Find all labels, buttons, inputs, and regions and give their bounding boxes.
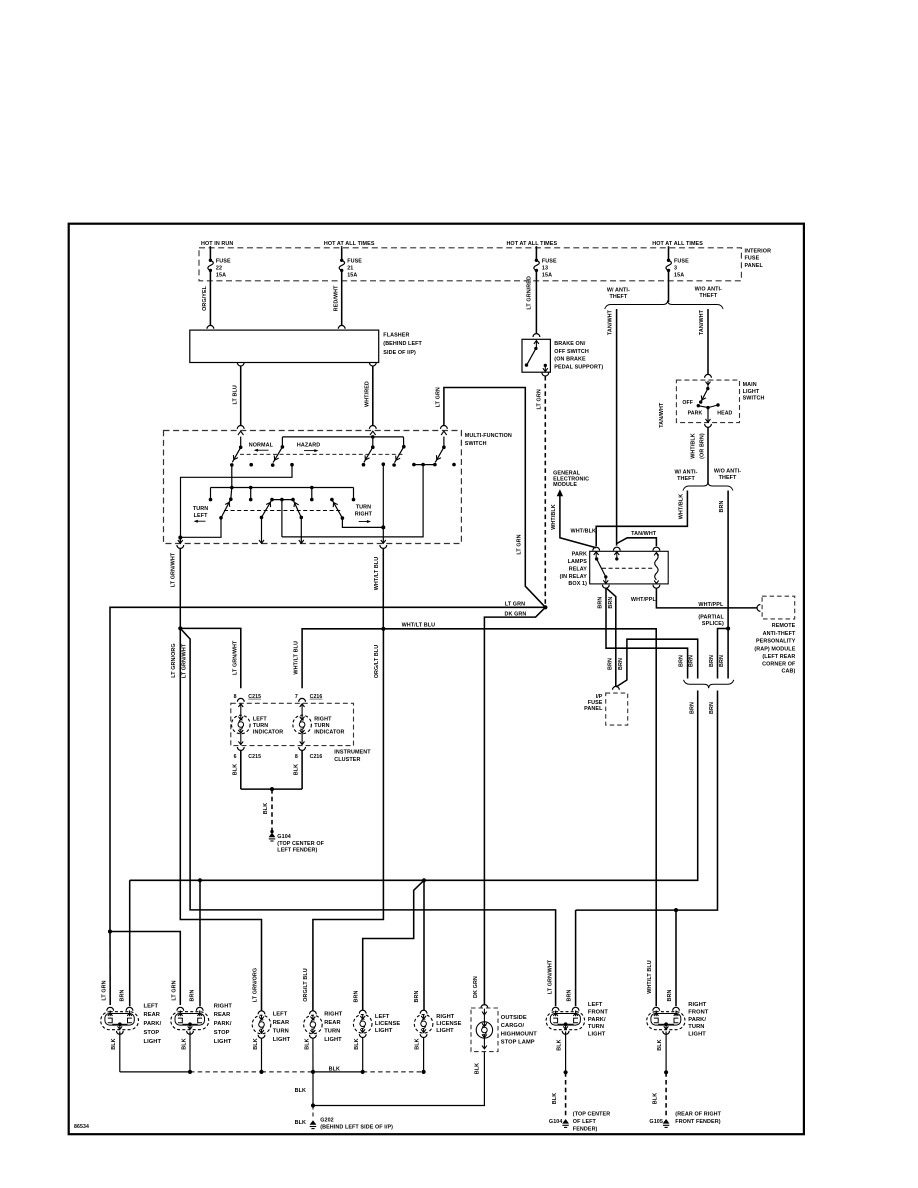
MFS normal contact set <box>240 437 242 447</box>
wire BLK to G104 (front, dashed) <box>565 1072 567 1117</box>
svg-text:LT GRN: LT GRN <box>172 980 178 1000</box>
svg-text:SWITCH: SWITCH <box>465 441 487 447</box>
svg-text:BRN: BRN <box>679 655 685 667</box>
svg-text:LT GRN: LT GRN <box>435 387 441 407</box>
svg-text:HOT IN RUN: HOT IN RUN <box>201 241 233 247</box>
svg-text:BRN: BRN <box>354 991 360 1003</box>
wire BRN relay pin4 branch A <box>606 588 688 678</box>
svg-text:BRN: BRN <box>709 702 715 714</box>
svg-text:LICENSE: LICENSE <box>436 1021 461 1027</box>
svg-text:WHT/LT BLU: WHT/LT BLU <box>402 623 436 629</box>
MFS centre tent contacts <box>272 499 293 501</box>
svg-text:BRN: BRN <box>190 990 196 1002</box>
svg-text:(BEHIND LEFT SIDE OF I/P): (BEHIND LEFT SIDE OF I/P) <box>320 1124 393 1130</box>
svg-text:PARK: PARK <box>572 552 587 558</box>
svg-text:BLK: BLK <box>552 1093 558 1104</box>
svg-text:LT GRN: LT GRN <box>505 601 525 607</box>
svg-text:LT BLU: LT BLU <box>232 385 238 404</box>
wire BRN to rear lamps feed <box>130 691 698 881</box>
svg-text:BLK: BLK <box>304 1038 310 1049</box>
svg-text:BRN: BRN <box>719 655 725 667</box>
wire BRN to front lamps feed <box>576 691 718 911</box>
svg-text:BLK: BLK <box>232 764 238 775</box>
svg-text:TURN: TURN <box>324 1029 340 1035</box>
svg-text:BLK: BLK <box>295 1088 306 1094</box>
MFS hazard contact 1 <box>281 437 283 447</box>
svg-text:LT GRN/RED: LT GRN/RED <box>526 276 532 310</box>
svg-text:ORG/YEL: ORG/YEL <box>202 285 208 311</box>
svg-text:(RAP) MODULE: (RAP) MODULE <box>754 646 795 652</box>
svg-text:RED/WHT: RED/WHT <box>334 285 340 311</box>
svg-text:HOT AT ALL TIMES: HOT AT ALL TIMES <box>324 241 375 247</box>
svg-text:STOP: STOP <box>144 1030 160 1036</box>
multi-function switch box <box>164 431 462 544</box>
svg-text:LIGHT: LIGHT <box>688 1032 706 1038</box>
svg-text:C215: C215 <box>248 694 261 700</box>
RAP module box <box>762 596 795 619</box>
node BRN front split <box>674 908 678 912</box>
MFS wire turn feed to wiper bus <box>282 465 423 537</box>
svg-text:INSTRUMENT: INSTRUMENT <box>334 749 371 755</box>
svg-text:21: 21 <box>347 265 353 271</box>
svg-text:FUSE: FUSE <box>674 258 689 264</box>
svg-text:MODULE: MODULE <box>553 482 577 488</box>
svg-text:W/ ANTI-: W/ ANTI- <box>674 469 697 475</box>
wire WHT/RED flasher to multi-function switch <box>369 363 376 366</box>
svg-text:WHT/PPL: WHT/PPL <box>698 602 724 608</box>
svg-text:HEAD: HEAD <box>717 410 732 416</box>
svg-text:RIGHT: RIGHT <box>324 1011 343 1017</box>
wire WHT/LT BLU bus to right front light <box>383 629 656 1006</box>
svg-text:7: 7 <box>295 694 298 700</box>
svg-text:RIGHT: RIGHT <box>355 511 373 517</box>
svg-text:G105: G105 <box>649 1119 663 1125</box>
svg-text:G104: G104 <box>277 834 291 840</box>
svg-text:C215: C215 <box>248 754 261 760</box>
svg-text:BLK: BLK <box>415 1038 421 1049</box>
node BRN license split <box>422 878 426 882</box>
svg-text:WHT/BLK: WHT/BLK <box>679 494 685 520</box>
wire BRN relay pin4 branch B to I/P fuse panel <box>606 588 615 686</box>
MFS hazard contact 2 <box>372 437 374 447</box>
wire TAN/WHT branch to relay pin 3 <box>617 538 657 546</box>
svg-text:G202: G202 <box>320 1118 334 1124</box>
svg-text:BLK: BLK <box>111 1038 117 1049</box>
svg-text:(IN RELAY: (IN RELAY <box>560 574 588 580</box>
svg-text:TURN: TURN <box>314 723 329 729</box>
svg-text:RIGHT: RIGHT <box>214 1003 233 1009</box>
svg-text:LT GRN: LT GRN <box>537 389 543 409</box>
svg-text:WHT/LT BLU: WHT/LT BLU <box>374 557 380 591</box>
svg-text:WHT/BLK: WHT/BLK <box>571 529 597 535</box>
brake on/off switch <box>522 339 550 372</box>
svg-text:BRN: BRN <box>618 658 624 670</box>
svg-text:HAZARD: HAZARD <box>297 442 320 448</box>
svg-text:RIGHT: RIGHT <box>314 717 332 723</box>
svg-text:LAMPS: LAMPS <box>568 559 588 565</box>
wire LT BLU flasher to multi-function switch <box>237 363 244 366</box>
svg-text:BLK: BLK <box>329 1067 340 1073</box>
svg-text:LIGHT: LIGHT <box>144 1039 162 1045</box>
svg-text:MULTI-FUNCTION: MULTI-FUNCTION <box>465 433 512 439</box>
brace BRN wires <box>684 680 734 689</box>
wire ORG/LT BLU to right rear turn light <box>313 629 384 1011</box>
svg-text:PARK/: PARK/ <box>688 1017 706 1023</box>
svg-text:BLK: BLK <box>295 1120 306 1126</box>
wire LT GRN brake switch to junction (dashed) <box>542 373 549 376</box>
svg-text:INDICATOR: INDICATOR <box>253 729 283 735</box>
left turn indicator <box>238 704 243 707</box>
MFS lower bus <box>211 487 354 489</box>
svg-text:CAB): CAB) <box>782 669 796 675</box>
svg-text:REAR: REAR <box>324 1020 341 1026</box>
svg-text:BOX 1): BOX 1) <box>568 581 587 587</box>
svg-text:LEFT: LEFT <box>144 1003 159 1009</box>
svg-text:WHT/LT BLU: WHT/LT BLU <box>647 960 653 994</box>
svg-text:(LEFT REAR: (LEFT REAR <box>762 654 795 660</box>
svg-text:TAN/WHT: TAN/WHT <box>659 402 665 428</box>
svg-text:C216: C216 <box>310 754 323 760</box>
MFS right output wire <box>382 464 384 542</box>
svg-text:LT GRN/WHT: LT GRN/WHT <box>182 643 188 678</box>
svg-text:DK GRN: DK GRN <box>473 976 479 998</box>
svg-text:INDICATOR: INDICATOR <box>314 729 344 735</box>
svg-text:TURN: TURN <box>688 1024 704 1030</box>
wire LT GRN/ORG to left rear turn light <box>180 628 261 1010</box>
svg-text:BLK: BLK <box>652 1093 658 1104</box>
svg-text:LT GRN: LT GRN <box>516 534 522 554</box>
svg-text:TURN: TURN <box>253 723 268 729</box>
wire BRN I/P fuse panel to brace <box>616 639 698 687</box>
svg-text:SWITCH: SWITCH <box>743 396 765 402</box>
MFS hazard feed line <box>282 436 403 438</box>
svg-text:CLUSTER: CLUSTER <box>334 757 360 763</box>
wire WHT/LT BLU to cluster right indicator <box>302 629 383 689</box>
svg-text:HIGHMOUNT: HIGHMOUNT <box>501 1031 537 1037</box>
svg-text:TURN: TURN <box>273 1029 289 1035</box>
svg-text:TAN/WHT: TAN/WHT <box>631 531 657 537</box>
wire TAN/WHT (w/ anti-theft) to park lamps relay <box>616 309 618 546</box>
svg-text:RIGHT: RIGHT <box>688 1002 707 1008</box>
wire LT GRN/WHT left turn output <box>177 545 184 548</box>
svg-text:FUSE: FUSE <box>745 256 760 262</box>
svg-text:PERSONALITY: PERSONALITY <box>756 639 796 645</box>
wire BRN to left license light <box>363 880 424 1010</box>
svg-text:LIGHT: LIGHT <box>324 1037 342 1043</box>
svg-text:FLASHER: FLASHER <box>383 332 409 338</box>
cluster connector C216 pin 8 <box>299 747 306 750</box>
svg-text:(TOP CENTER: (TOP CENTER <box>573 1112 610 1118</box>
I/P fuse panel box <box>606 693 628 725</box>
park lamps relay box <box>590 551 669 584</box>
svg-text:8: 8 <box>234 694 237 700</box>
interior fuse panel box <box>199 248 741 281</box>
wire BRN to right front light <box>675 910 677 1006</box>
svg-text:FUSE: FUSE <box>542 258 557 264</box>
MFS turn feed contact <box>443 437 445 447</box>
svg-text:HOT AT ALL TIMES: HOT AT ALL TIMES <box>652 241 703 247</box>
left rear park/stop light <box>101 1012 139 1030</box>
svg-text:TURN: TURN <box>588 1024 604 1030</box>
svg-text:(ON BRAKE: (ON BRAKE <box>554 357 586 363</box>
svg-text:FENDER): FENDER) <box>573 1127 598 1133</box>
right license light <box>420 1010 427 1013</box>
wire LT GRN/WHT to cluster left indicator <box>180 628 241 688</box>
MFS hazard contact 3 <box>403 437 405 447</box>
svg-text:LT GRN/WHT: LT GRN/WHT <box>171 552 177 587</box>
svg-text:BRN: BRN <box>667 990 673 1002</box>
wire BLK to G104 (dashed) <box>271 789 273 831</box>
wire BRN splice branch <box>718 629 729 679</box>
svg-text:PARK/: PARK/ <box>588 1017 606 1023</box>
svg-text:REAR: REAR <box>214 1012 231 1018</box>
cluster connector C216 pin 7 <box>299 698 306 701</box>
svg-text:WHT/PPL: WHT/PPL <box>631 597 657 603</box>
svg-text:CORNER OF: CORNER OF <box>762 662 796 668</box>
wire LT GRN/WHT to left front light <box>180 628 555 1006</box>
svg-text:PARK/: PARK/ <box>214 1021 232 1027</box>
fuse 22 15A <box>209 248 211 260</box>
wire ORG/YEL fuse22 to flasher <box>209 281 211 326</box>
wire TAN/WHT (w/o anti-theft) to main light switch <box>707 309 709 374</box>
relay coil <box>654 552 659 555</box>
node left front ground connector <box>564 1070 568 1074</box>
ground G202 <box>310 1120 317 1125</box>
svg-text:THEFT: THEFT <box>677 476 695 482</box>
brace W/ and W/O anti-theft (lower) <box>683 482 733 491</box>
svg-text:TAN/WHT: TAN/WHT <box>608 309 614 335</box>
svg-text:BLK: BLK <box>263 803 269 814</box>
svg-text:PARK: PARK <box>688 410 703 416</box>
svg-text:LIGHT: LIGHT <box>273 1037 291 1043</box>
svg-text:15A: 15A <box>674 272 684 278</box>
svg-text:OFF SWITCH: OFF SWITCH <box>554 349 589 355</box>
svg-text:LEFT FENDER): LEFT FENDER) <box>277 848 317 854</box>
cluster connector C215 pin 6 <box>237 747 244 750</box>
wire DK GRN to highmount stop lamp <box>484 607 545 1005</box>
svg-text:BRAKE ON/: BRAKE ON/ <box>554 341 586 347</box>
svg-text:15A: 15A <box>216 272 226 278</box>
relay pin 2 <box>613 547 620 550</box>
node right turn split <box>381 627 385 631</box>
svg-text:LEFT: LEFT <box>194 513 208 519</box>
svg-text:LT GRN/WHT: LT GRN/WHT <box>547 959 553 994</box>
svg-text:LIGHT: LIGHT <box>743 389 760 395</box>
wire LT GRN into multi-function switch <box>444 388 546 608</box>
svg-text:WHT/BLK: WHT/BLK <box>691 433 697 459</box>
svg-text:PEDAL SUPPORT): PEDAL SUPPORT) <box>554 364 603 370</box>
node right front ground connector <box>664 1070 668 1074</box>
svg-text:REAR: REAR <box>144 1012 161 1018</box>
svg-text:BRN: BRN <box>414 991 420 1003</box>
relay pin 5 <box>653 585 660 588</box>
flasher box <box>190 330 379 362</box>
svg-text:FUSE: FUSE <box>347 258 362 264</box>
svg-text:22: 22 <box>216 265 222 271</box>
outside cargo/highmount stop lamp <box>481 1005 488 1008</box>
svg-text:SIDE OF I/P): SIDE OF I/P) <box>383 350 416 356</box>
svg-text:15A: 15A <box>542 272 552 278</box>
wire BLK cluster grounds <box>240 750 242 789</box>
brace W/ and W/O anti-theft (upper) <box>605 301 723 310</box>
wire LT GRN bus to rear stop lamps <box>110 607 545 931</box>
svg-text:CARGO/: CARGO/ <box>501 1023 525 1029</box>
svg-text:INTERIOR: INTERIOR <box>745 249 772 255</box>
wire BLK highmount to ground run <box>313 1052 484 1106</box>
svg-text:BRN: BRN <box>709 655 715 667</box>
main light switch <box>705 374 712 377</box>
svg-text:BLK: BLK <box>556 1039 562 1050</box>
svg-text:LIGHT: LIGHT <box>375 1028 393 1034</box>
svg-text:LT GRN/ORG: LT GRN/ORG <box>171 643 177 677</box>
svg-text:FRONT FENDER): FRONT FENDER) <box>675 1119 720 1125</box>
svg-text:BLK: BLK <box>294 764 300 775</box>
wire BLK rear ground bus <box>120 1071 190 1073</box>
right rear turn light <box>309 1011 316 1014</box>
svg-text:BRN: BRN <box>719 501 725 513</box>
svg-text:STOP: STOP <box>214 1030 230 1036</box>
svg-text:TURN: TURN <box>193 506 208 512</box>
fuse 13 15A <box>535 248 537 260</box>
svg-text:C216: C216 <box>310 694 323 700</box>
wire BRN to right license light <box>423 880 425 1010</box>
svg-text:BRN: BRN <box>120 990 126 1002</box>
wire WHT/BLK (OR BRN) from main light switch <box>705 424 712 427</box>
wire BLK bus tap to G202 <box>312 1072 314 1106</box>
svg-text:MAIN: MAIN <box>743 382 757 388</box>
fuse 3 15A <box>668 248 670 260</box>
right front park/turn light <box>647 1012 685 1030</box>
svg-text:LT GRN/WHT: LT GRN/WHT <box>232 640 238 675</box>
svg-text:REAR: REAR <box>273 1020 290 1026</box>
svg-text:LT GRN: LT GRN <box>101 980 107 1000</box>
MFS turn-left switch arm <box>231 488 232 499</box>
svg-text:THEFT: THEFT <box>699 293 717 299</box>
svg-text:(TOP CENTER OF: (TOP CENTER OF <box>277 841 324 847</box>
wire WHT/PPL relay pin5 to RAP module <box>656 588 757 608</box>
wire WHT/BLK to park lamps relay pin 1 <box>596 491 687 547</box>
svg-text:FRONT: FRONT <box>588 1009 609 1015</box>
left front park/turn light <box>546 1012 585 1030</box>
svg-text:TURN: TURN <box>356 505 371 511</box>
svg-text:WHT/LT BLU: WHT/LT BLU <box>294 641 300 675</box>
svg-text:BLK: BLK <box>354 1038 360 1049</box>
relay pin 3 <box>653 547 660 550</box>
svg-text:RIGHT: RIGHT <box>436 1014 455 1020</box>
relay pin 1 <box>593 547 600 550</box>
svg-text:FUSE: FUSE <box>216 258 231 264</box>
left rear turn light <box>258 1011 265 1014</box>
MFS exit arrow right-rear feed <box>300 517 302 542</box>
svg-text:LIGHT: LIGHT <box>436 1028 454 1034</box>
svg-text:W/ ANTI-: W/ ANTI- <box>607 287 630 293</box>
svg-text:BRN: BRN <box>608 597 614 609</box>
svg-text:BRN: BRN <box>567 990 573 1002</box>
svg-text:NORMAL: NORMAL <box>249 442 274 448</box>
svg-text:W/O ANTI-: W/O ANTI- <box>714 469 741 475</box>
svg-text:PANEL: PANEL <box>584 706 603 712</box>
svg-text:3: 3 <box>674 265 677 271</box>
svg-text:(BEHIND LEFT: (BEHIND LEFT <box>383 341 422 347</box>
svg-text:BLK: BLK <box>181 1038 187 1049</box>
svg-text:OFF: OFF <box>682 400 693 406</box>
svg-text:(OR BRN): (OR BRN) <box>700 433 706 459</box>
svg-text:STOP LAMP: STOP LAMP <box>501 1040 535 1046</box>
svg-text:LEFT: LEFT <box>253 717 267 723</box>
svg-text:BRN: BRN <box>608 658 614 670</box>
wire BRN to partial splice <box>727 491 729 679</box>
relay pin 4 <box>602 585 609 588</box>
svg-text:WHT/BLK: WHT/BLK <box>551 504 557 530</box>
svg-text:ORG/LT BLU: ORG/LT BLU <box>374 645 380 679</box>
svg-text:BLK: BLK <box>657 1039 663 1050</box>
svg-text:LEFT: LEFT <box>273 1011 288 1017</box>
node cluster ground join <box>270 787 274 791</box>
svg-text:BRN: BRN <box>689 702 695 714</box>
svg-text:PARK/: PARK/ <box>144 1021 162 1027</box>
svg-text:86534: 86534 <box>74 1124 89 1130</box>
svg-text:THEFT: THEFT <box>719 475 737 481</box>
wire BRN rear lamp bus drops <box>129 880 131 1006</box>
svg-text:BLK: BLK <box>253 1038 259 1049</box>
svg-text:BLK: BLK <box>475 1063 481 1074</box>
instrument cluster box <box>231 703 354 745</box>
svg-text:ORG/LT BLU: ORG/LT BLU <box>303 968 309 1002</box>
svg-text:LICENSE: LICENSE <box>375 1021 400 1027</box>
svg-text:LEFT: LEFT <box>588 1002 603 1008</box>
MFS turn-right switch arm <box>330 498 334 502</box>
svg-text:(PARTIAL: (PARTIAL <box>698 615 724 621</box>
svg-text:(REAR OF RIGHT: (REAR OF RIGHT <box>675 1112 721 1118</box>
wire fuse3 to anti-theft brace <box>668 281 670 302</box>
cluster connector C215 pin 8 <box>237 698 244 701</box>
right rear park/stop light <box>171 1012 209 1030</box>
wire LT GRN/RED fuse13 to brake switch <box>535 281 537 334</box>
svg-text:SPLICE): SPLICE) <box>702 621 724 627</box>
svg-text:OF LEFT: OF LEFT <box>573 1119 597 1125</box>
wire BLK to G105 (dashed) <box>665 1072 667 1117</box>
svg-text:BRN: BRN <box>598 597 604 609</box>
node rear stop split <box>108 929 112 933</box>
ground G104 (cluster) <box>270 830 273 833</box>
svg-text:TAN/WHT: TAN/WHT <box>699 309 705 335</box>
node left turn split <box>178 626 182 630</box>
ground G105 <box>663 1119 670 1124</box>
right turn indicator <box>300 704 305 707</box>
left license light <box>359 1010 366 1013</box>
fuse 21 15A <box>341 248 343 260</box>
svg-text:LEFT: LEFT <box>375 1014 390 1020</box>
node LT GRN junction <box>543 605 547 609</box>
svg-text:BRN: BRN <box>688 655 694 667</box>
partial splice node <box>726 626 730 630</box>
svg-text:THEFT: THEFT <box>609 294 627 300</box>
svg-text:15A: 15A <box>347 272 357 278</box>
MFS stationary contacts row <box>249 463 253 467</box>
ground G104 (left front) <box>562 1119 569 1124</box>
svg-text:WHT/RED: WHT/RED <box>365 381 371 407</box>
svg-text:LIGHT: LIGHT <box>214 1039 232 1045</box>
wire RED/WHT fuse21 to flasher <box>341 281 343 326</box>
svg-text:PANEL: PANEL <box>745 263 764 269</box>
svg-text:OUTSIDE: OUTSIDE <box>501 1015 527 1021</box>
border frame <box>69 224 804 1134</box>
wire WHT/LT BLU right turn output <box>380 545 387 548</box>
wire WHT/BLK GEM to relay pin 1 <box>560 496 596 548</box>
svg-text:LIGHT: LIGHT <box>588 1032 606 1038</box>
svg-text:LT GRN/ORG: LT GRN/ORG <box>252 968 258 1002</box>
svg-text:8: 8 <box>295 754 298 760</box>
